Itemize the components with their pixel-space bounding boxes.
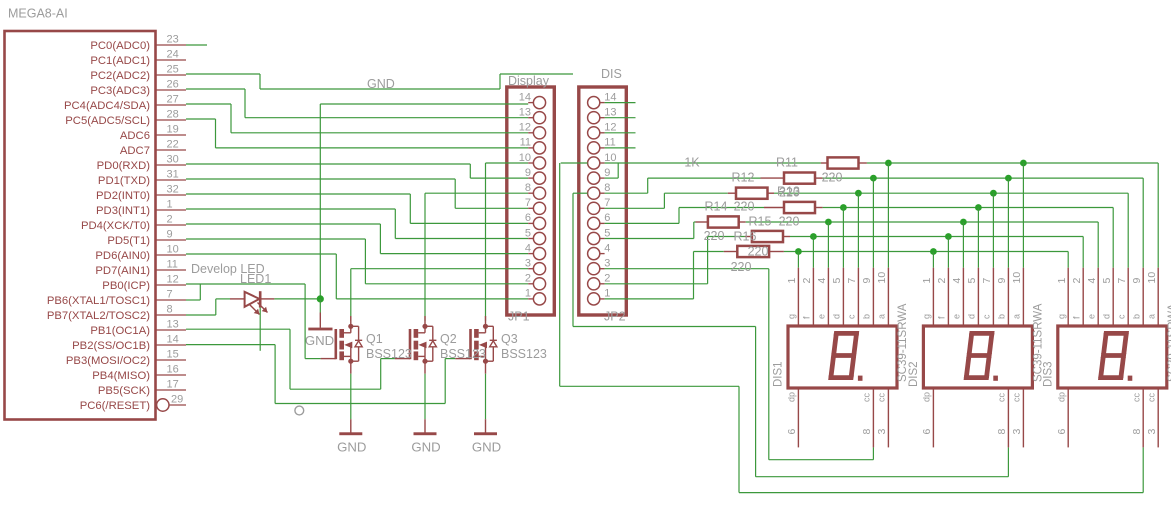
svg-text:5: 5 — [831, 278, 843, 284]
svg-text:e: e — [952, 314, 962, 319]
svg-text:220: 220 — [822, 171, 843, 185]
svg-text:3: 3 — [604, 258, 610, 270]
svg-text:4: 4 — [604, 242, 610, 254]
svg-text:PD0(RXD): PD0(RXD) — [97, 160, 151, 172]
svg-text:32: 32 — [167, 184, 179, 196]
svg-text:10: 10 — [167, 244, 179, 256]
svg-text:b: b — [862, 314, 872, 319]
svg-text:SC39-11SRWA: SC39-11SRWA — [1167, 303, 1171, 382]
svg-text:7: 7 — [604, 197, 610, 209]
svg-text:22: 22 — [167, 139, 179, 151]
svg-text:2: 2 — [801, 278, 813, 284]
svg-text:220: 220 — [704, 229, 725, 243]
svg-text:PB0(ICP): PB0(ICP) — [102, 280, 150, 292]
svg-text:14: 14 — [167, 334, 179, 346]
svg-text:2: 2 — [936, 278, 948, 284]
svg-text:8: 8 — [604, 182, 610, 194]
svg-text:12: 12 — [604, 122, 616, 134]
svg-text:8: 8 — [996, 429, 1008, 435]
svg-text:cc: cc — [1131, 393, 1141, 403]
svg-text:DIS2: DIS2 — [908, 361, 920, 387]
svg-text:a: a — [1012, 314, 1022, 319]
svg-text:ADC7: ADC7 — [120, 145, 150, 157]
svg-text:15: 15 — [167, 349, 179, 361]
svg-text:f: f — [802, 316, 812, 319]
svg-text:19: 19 — [167, 124, 179, 136]
svg-text:6: 6 — [786, 429, 798, 435]
svg-text:PC2(ADC2): PC2(ADC2) — [90, 70, 150, 82]
svg-text:10: 10 — [876, 272, 888, 284]
svg-text:dp: dp — [787, 392, 797, 402]
svg-text:8: 8 — [1131, 429, 1143, 435]
svg-text:Display: Display — [508, 74, 550, 88]
svg-text:a: a — [877, 314, 887, 319]
svg-text:6: 6 — [525, 212, 531, 224]
svg-text:14: 14 — [604, 91, 616, 103]
svg-text:PC1(ADC1): PC1(ADC1) — [90, 55, 150, 67]
svg-text:23: 23 — [167, 34, 179, 46]
svg-text:g: g — [922, 314, 932, 319]
svg-text:R12: R12 — [732, 171, 755, 185]
svg-text:3: 3 — [1011, 429, 1023, 435]
svg-text:R14: R14 — [705, 200, 728, 214]
svg-text:1: 1 — [921, 278, 933, 284]
svg-text:2: 2 — [525, 273, 531, 285]
svg-text:9: 9 — [167, 229, 173, 241]
svg-text:1: 1 — [1056, 278, 1068, 284]
svg-text:GND: GND — [305, 333, 334, 348]
svg-text:PC4(ADC4/SDA): PC4(ADC4/SDA) — [64, 100, 150, 112]
svg-text:3: 3 — [1146, 429, 1158, 435]
svg-text:JP2: JP2 — [604, 310, 626, 324]
svg-text:1K: 1K — [684, 156, 700, 170]
svg-text:9: 9 — [525, 167, 531, 179]
svg-text:1: 1 — [525, 288, 531, 300]
svg-text:1: 1 — [167, 199, 173, 211]
svg-text:PB2(SS/OC1B): PB2(SS/OC1B) — [72, 340, 150, 352]
svg-text:7: 7 — [167, 289, 173, 301]
svg-text:PB1(OC1A): PB1(OC1A) — [90, 325, 150, 337]
svg-text:13: 13 — [167, 319, 179, 331]
svg-text:MEGA8-AI: MEGA8-AI — [8, 7, 68, 21]
svg-text:g: g — [1056, 314, 1066, 319]
svg-text:8: 8 — [525, 182, 531, 194]
svg-text:4: 4 — [525, 242, 531, 254]
svg-text:6: 6 — [604, 212, 610, 224]
svg-text:R15: R15 — [749, 215, 772, 229]
svg-text:b: b — [1131, 314, 1141, 319]
svg-text:d: d — [832, 314, 842, 319]
svg-text:7: 7 — [1116, 278, 1128, 284]
svg-text:PD1(TXD): PD1(TXD) — [98, 175, 150, 187]
svg-text:220: 220 — [731, 260, 752, 274]
svg-text:10: 10 — [1146, 272, 1158, 284]
svg-text:10: 10 — [604, 152, 616, 164]
svg-text:29: 29 — [171, 394, 183, 406]
svg-text:7: 7 — [846, 278, 858, 284]
svg-text:dp: dp — [922, 392, 932, 402]
svg-text:GND: GND — [367, 77, 395, 91]
svg-text:10: 10 — [519, 152, 531, 164]
svg-text:Q1: Q1 — [366, 332, 383, 346]
svg-text:14: 14 — [519, 91, 531, 103]
svg-text:6: 6 — [1056, 429, 1068, 435]
svg-text:PB7(XTAL2/TOSC2): PB7(XTAL2/TOSC2) — [47, 310, 150, 322]
svg-text:4: 4 — [951, 278, 963, 284]
svg-text:27: 27 — [167, 94, 179, 106]
svg-text:24: 24 — [167, 49, 179, 61]
svg-text:11: 11 — [604, 137, 615, 149]
svg-text:26: 26 — [167, 79, 179, 91]
svg-text:PC3(ADC3): PC3(ADC3) — [90, 85, 150, 97]
svg-text:DIS: DIS — [601, 67, 622, 81]
svg-text:9: 9 — [996, 278, 1008, 284]
svg-text:7: 7 — [525, 197, 531, 209]
svg-text:dp: dp — [1056, 392, 1066, 402]
svg-text:28: 28 — [167, 109, 179, 121]
svg-text:GND: GND — [337, 440, 366, 455]
svg-text:cc: cc — [1146, 393, 1156, 403]
svg-text:Q2: Q2 — [440, 332, 457, 346]
svg-text:cc: cc — [877, 393, 887, 403]
svg-text:220: 220 — [779, 186, 800, 200]
svg-text:PB5(SCK): PB5(SCK) — [98, 385, 150, 397]
svg-text:220: 220 — [748, 245, 769, 259]
svg-text:PB3(MOSI/OC2): PB3(MOSI/OC2) — [66, 355, 150, 367]
svg-text:PB6(XTAL1/TOSC1): PB6(XTAL1/TOSC1) — [47, 295, 150, 307]
svg-text:PC6(/RESET): PC6(/RESET) — [80, 400, 151, 412]
svg-text:PD5(T1): PD5(T1) — [107, 235, 150, 247]
svg-text:3: 3 — [876, 429, 888, 435]
svg-text:5: 5 — [525, 227, 531, 239]
svg-text:c: c — [847, 314, 857, 319]
svg-text:f: f — [1071, 316, 1081, 319]
svg-text:R11: R11 — [776, 156, 798, 170]
svg-text:11: 11 — [520, 137, 531, 149]
svg-text:9: 9 — [861, 278, 873, 284]
svg-text:13: 13 — [519, 107, 531, 119]
svg-text:c: c — [1116, 314, 1126, 319]
svg-text:PD7(AIN1): PD7(AIN1) — [95, 265, 150, 277]
svg-text:d: d — [1101, 314, 1111, 319]
svg-text:10: 10 — [1011, 272, 1023, 284]
svg-text:cc: cc — [862, 393, 872, 403]
svg-text:Q3: Q3 — [501, 332, 518, 346]
svg-text:5: 5 — [604, 227, 610, 239]
svg-text:R16: R16 — [734, 230, 757, 244]
svg-text:PD3(INT1): PD3(INT1) — [96, 205, 150, 217]
svg-text:PC5(ADC5/SCL): PC5(ADC5/SCL) — [65, 115, 150, 127]
svg-text:c: c — [982, 314, 992, 319]
svg-text:17: 17 — [167, 379, 179, 391]
svg-text:8: 8 — [861, 429, 873, 435]
svg-text:9: 9 — [1131, 278, 1143, 284]
svg-text:16: 16 — [167, 364, 179, 376]
svg-text:DIS1: DIS1 — [773, 361, 785, 387]
svg-text:5: 5 — [1101, 278, 1113, 284]
svg-text:9: 9 — [604, 167, 610, 179]
svg-text:PD4(XCK/T0): PD4(XCK/T0) — [81, 220, 150, 232]
svg-text:13: 13 — [604, 107, 616, 119]
svg-text:GND: GND — [472, 440, 501, 455]
svg-text:b: b — [997, 314, 1007, 319]
svg-text:2: 2 — [604, 273, 610, 285]
svg-text:cc: cc — [1012, 393, 1022, 403]
svg-text:e: e — [1086, 314, 1096, 319]
svg-text:GND: GND — [411, 440, 440, 455]
svg-text:1: 1 — [604, 288, 610, 300]
svg-text:220: 220 — [734, 200, 755, 214]
svg-text:2: 2 — [167, 214, 173, 226]
svg-text:8: 8 — [167, 304, 173, 316]
svg-text:LED1: LED1 — [240, 272, 271, 286]
svg-text:7: 7 — [981, 278, 993, 284]
svg-text:PC0(ADC0): PC0(ADC0) — [90, 40, 150, 52]
svg-text:DIS3: DIS3 — [1042, 361, 1054, 387]
svg-text:12: 12 — [519, 122, 531, 134]
svg-text:PD6(AIN0): PD6(AIN0) — [95, 250, 150, 262]
svg-text:3: 3 — [525, 258, 531, 270]
svg-text:a: a — [1146, 314, 1156, 319]
svg-text:6: 6 — [921, 429, 933, 435]
svg-text:1: 1 — [786, 278, 798, 284]
svg-text:220: 220 — [779, 215, 800, 229]
svg-text:PD2(INT0): PD2(INT0) — [96, 190, 150, 202]
svg-text:d: d — [967, 314, 977, 319]
svg-text:e: e — [817, 314, 827, 319]
svg-text:g: g — [787, 314, 797, 319]
svg-text:BSS123: BSS123 — [501, 347, 547, 361]
svg-text:2: 2 — [1071, 278, 1083, 284]
svg-text:cc: cc — [997, 393, 1007, 403]
svg-text:4: 4 — [816, 278, 828, 284]
svg-text:PB4(MISO): PB4(MISO) — [92, 370, 150, 382]
svg-text:5: 5 — [966, 278, 978, 284]
svg-text:30: 30 — [167, 154, 179, 166]
svg-text:12: 12 — [167, 274, 179, 286]
svg-text:31: 31 — [167, 169, 179, 181]
svg-text:f: f — [937, 316, 947, 319]
svg-text:ADC6: ADC6 — [120, 130, 150, 142]
svg-text:25: 25 — [167, 64, 179, 76]
svg-text:4: 4 — [1086, 278, 1098, 284]
svg-text:JP1: JP1 — [508, 310, 530, 324]
svg-text:11: 11 — [167, 259, 178, 271]
